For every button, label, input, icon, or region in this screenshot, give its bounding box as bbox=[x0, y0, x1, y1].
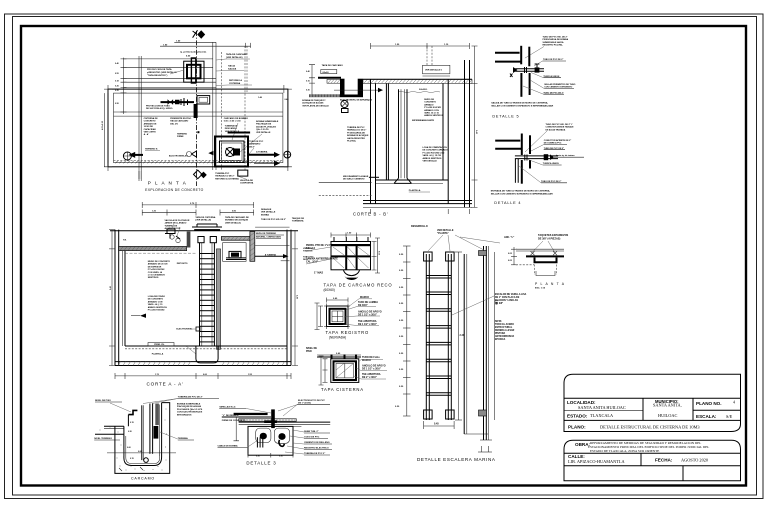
right wall inner pair bbox=[442, 83, 444, 180]
svg-text:ENTRADA DE TUBO A TRAVES DE MU: ENTRADA DE TUBO A TRAVES DE MURO DE CIST… bbox=[491, 190, 551, 193]
pump in registro bbox=[341, 100, 348, 107]
shaft anchor squares bbox=[198, 237, 204, 243]
svg-text:CARCAMO DE BOMBEO: CARCAMO DE BOMBEO bbox=[224, 117, 249, 120]
pipe above pit bbox=[228, 132, 251, 134]
registro left jamb bbox=[340, 79, 345, 97]
svg-text:A TUBERIA: A TUBERIA bbox=[256, 151, 268, 154]
svg-text:TUBO DE PVC HID. DE 2": TUBO DE PVC HID. DE 2" bbox=[543, 37, 568, 39]
svg-text:0.25: 0.25 bbox=[115, 86, 119, 88]
interior water line bbox=[125, 252, 196, 254]
svg-text:CONCRETO: CONCRETO bbox=[424, 102, 436, 104]
row line mid right bbox=[693, 409, 741, 411]
right leader texts above plan bbox=[226, 53, 248, 85]
internal dim ticks bbox=[127, 422, 142, 460]
shaft right wall hatched bbox=[216, 249, 220, 349]
svg-text:DE AGUA TRATADA: DE AGUA TRATADA bbox=[546, 128, 566, 131]
svg-text:S/E: S/E bbox=[726, 414, 733, 419]
svg-text:NIVEL DE PISO: NIVEL DE PISO bbox=[95, 400, 111, 402]
top dim line bbox=[371, 45, 470, 47]
svg-text:LOSA DE CIMENTACION: LOSA DE CIMENTACION bbox=[423, 146, 448, 149]
top right text d3 bbox=[298, 400, 325, 405]
svg-text:P L A N T A: P L A N T A bbox=[535, 282, 565, 286]
right dim ticks bbox=[245, 43, 250, 48]
svg-text:CABLE DE BOMBA: CABLE DE BOMBA bbox=[218, 445, 238, 448]
taquetes text bbox=[538, 234, 569, 241]
mejoramiento text bbox=[343, 175, 369, 181]
svg-text:COMPUERTA: COMPUERTA bbox=[240, 182, 254, 185]
svg-text:0.55: 0.55 bbox=[115, 73, 119, 75]
pipe double line d4 bbox=[515, 155, 558, 157]
soil hatch band bbox=[115, 161, 281, 164]
inner band double line bbox=[114, 111, 283, 113]
svg-text:TAPA DE CARCAMO: TAPA DE CARCAMO bbox=[322, 64, 344, 67]
text block left of pump bbox=[302, 99, 329, 107]
thick lintel line bbox=[318, 77, 341, 79]
line under obra bbox=[564, 452, 741, 454]
top dim line 2 bbox=[160, 45, 251, 47]
svg-text:0.30: 0.30 bbox=[306, 90, 310, 92]
thick center bar through square bbox=[191, 58, 195, 83]
central vertical thick bbox=[271, 409, 275, 428]
tuerca marks bbox=[525, 67, 527, 73]
svg-text:VER PLANTA DE DETALLE: VER PLANTA DE DETALLE bbox=[302, 104, 329, 107]
sump pit bbox=[196, 346, 218, 363]
leaders right bbox=[232, 123, 262, 154]
right inner wall bbox=[154, 403, 162, 466]
svg-text:TAPA REGISTRO: TAPA REGISTRO bbox=[326, 330, 370, 335]
x mark 2 bbox=[553, 251, 557, 255]
svg-text:CAPACIDAD: CAPACIDAD bbox=[144, 128, 157, 131]
svg-text:TAPA DE CISTERNA: TAPA DE CISTERNA bbox=[195, 216, 215, 219]
svg-text:PLUVIAL: PLUVIAL bbox=[347, 140, 357, 143]
caption text d5 bbox=[491, 101, 553, 107]
pump box outline bbox=[223, 243, 247, 262]
section cut marker top bbox=[197, 30, 205, 38]
svg-text:DE 2" x 3/16": DE 2" x 3/16" bbox=[362, 376, 377, 379]
svg-text:VALVULA DE: VALVULA DE bbox=[240, 179, 254, 182]
ladder rungs interior bbox=[200, 254, 215, 342]
svg-text:CORTE B - B': CORTE B - B' bbox=[353, 212, 388, 217]
svg-text:F'C=250 KG/CM2: F'C=250 KG/CM2 bbox=[148, 310, 165, 312]
svg-text:P/ACHIQUE DE: P/ACHIQUE DE bbox=[256, 123, 272, 126]
tee marks d4 bbox=[525, 155, 527, 161]
leader d4 bbox=[525, 131, 547, 152]
caption text d4 bbox=[491, 190, 553, 196]
left inlet arrow bbox=[129, 152, 136, 158]
side view right pair bbox=[483, 246, 485, 440]
top plate line 2 bbox=[516, 250, 564, 252]
right circle dark bbox=[278, 433, 285, 440]
svg-text:AMBOS SENTIDOS: AMBOS SENTIDOS bbox=[423, 157, 443, 160]
bottom row divider bbox=[682, 466, 684, 481]
svg-text:PLANTILLA: PLANTILLA bbox=[152, 353, 164, 356]
svg-text:ANC. "L": ANC. "L" bbox=[504, 236, 514, 239]
svg-text:A TUBERIA: A TUBERIA bbox=[265, 253, 277, 256]
svg-text:ARMADO DE 20 CM: ARMADO DE 20 CM bbox=[148, 263, 168, 266]
svg-text:VER DETALLE: VER DETALLE bbox=[261, 211, 276, 214]
arrow on pipe d4 bbox=[550, 154, 554, 160]
svg-text:MURO DE CONCRETO: MURO DE CONCRETO bbox=[148, 261, 171, 263]
bottom dim line bbox=[115, 375, 291, 377]
far right text 2 bbox=[303, 257, 314, 262]
svg-text:SELLAR PERIMETRO DE TUBO: SELLAR PERIMETRO DE TUBO bbox=[544, 83, 576, 86]
left dim boundary bbox=[123, 58, 125, 114]
rungs bbox=[426, 276, 451, 396]
tapa registro inner square bbox=[332, 311, 343, 322]
dashed box below bbox=[535, 265, 557, 276]
svg-text:F'C=250 KG/CM2: F'C=250 KG/CM2 bbox=[148, 269, 165, 271]
svg-text:(VER DETALLE): (VER DETALLE) bbox=[195, 219, 211, 222]
svg-text:TAPA CISTERNA: TAPA CISTERNA bbox=[321, 387, 364, 392]
top dim line bbox=[142, 204, 253, 206]
svg-text:QH= 1.5 LPS: QH= 1.5 LPS bbox=[256, 129, 269, 131]
svg-text:BOMBA SUMERGIBLE: BOMBA SUMERGIBLE bbox=[256, 120, 279, 123]
leader from text to wall bbox=[525, 47, 544, 59]
svg-text:SALIDA DE TUBO A TRAVES DE MUR: SALIDA DE TUBO A TRAVES DE MURO DE CISTE… bbox=[491, 101, 548, 104]
tapa carcamo dim ticks bbox=[331, 233, 371, 238]
title block upper box outline bbox=[564, 374, 741, 431]
right j hook bbox=[279, 440, 285, 446]
right text block 2 bbox=[256, 120, 279, 134]
suction pipe pair bbox=[385, 84, 387, 181]
svg-text:AGUAS PLUVIALES: AGUAS PLUVIALES bbox=[256, 125, 276, 128]
leader to pit bbox=[186, 346, 196, 354]
svg-text:0.18: 0.18 bbox=[115, 81, 119, 83]
svg-text:4: 4 bbox=[733, 400, 735, 405]
step bench left bbox=[148, 343, 174, 347]
wall right vertical lower bbox=[529, 73, 531, 95]
svg-text:CEMENTO DE RELLENO: CEMENTO DE RELLENO bbox=[304, 442, 330, 444]
svg-text:SANTA ANITA HUILOAC: SANTA ANITA HUILOAC bbox=[578, 405, 626, 410]
svg-text:HIDRAULICO DE 2": HIDRAULICO DE 2" bbox=[347, 129, 366, 132]
svg-text:TAPA DE CARCAMO DE: TAPA DE CARCAMO DE bbox=[225, 216, 249, 219]
inner floor second line bbox=[126, 405, 160, 464]
svg-text:CISTERNA: CISTERNA bbox=[229, 82, 241, 85]
left wall pair bbox=[370, 79, 372, 203]
pump pit inner bbox=[220, 141, 245, 163]
svg-text:SALIDA: SALIDA bbox=[228, 68, 237, 71]
svg-text:VER DETALLE 5: VER DETALLE 5 bbox=[425, 69, 443, 72]
svg-text:ARMADO CON: ARMADO CON bbox=[148, 300, 163, 303]
svg-text:HACIA CARCAMO: HACIA CARCAMO bbox=[170, 120, 188, 123]
svg-text:p/REGISTRO (VER DETALLE: p/REGISTRO (VER DETALLE bbox=[147, 71, 177, 74]
svg-text:ESCALA:: ESCALA: bbox=[696, 414, 717, 419]
tapa carcamo handle dark arc bbox=[345, 276, 359, 280]
ladder right rail bbox=[447, 254, 449, 420]
inlet arrow at pipe left bbox=[513, 67, 518, 73]
left dim vertical bbox=[235, 417, 237, 441]
svg-text:ELECTRODUCTO DE PVC: ELECTRODUCTO DE PVC bbox=[298, 400, 325, 402]
svg-text:AGOSTO 2020: AGOSTO 2020 bbox=[681, 457, 708, 462]
text block left area bbox=[144, 117, 159, 136]
svg-text:BOMBA DE ACHIQUE: BOMBA DE ACHIQUE bbox=[347, 134, 369, 137]
main rect inner bbox=[114, 93, 283, 163]
leader to mini planta bbox=[460, 237, 500, 243]
row line top of localidad row bbox=[564, 397, 741, 399]
leader line mid bbox=[255, 226, 289, 228]
tapa cisterna leaders bbox=[354, 360, 387, 380]
valve bowtie bbox=[168, 99, 180, 105]
tapa cisterna left dims bbox=[324, 359, 326, 383]
pipe 1 foot circle bbox=[144, 458, 149, 463]
svg-text:SUBE TUB. 2": SUBE TUB. 2" bbox=[304, 431, 319, 433]
tapa cisterna thick square bbox=[334, 361, 357, 380]
ladder left rail bbox=[425, 254, 427, 420]
a tuberia arrow right bbox=[255, 255, 283, 257]
tapa carcamo posts above bbox=[334, 237, 368, 242]
svg-text:AMBOS SENTIDOS: AMBOS SENTIDOS bbox=[148, 306, 168, 309]
svg-text:TUBO DE PVC HID. DE 2": TUBO DE PVC HID. DE 2" bbox=[261, 219, 286, 221]
svg-text:VARS. #4 @ 15: VARS. #4 @ 15 bbox=[424, 112, 439, 115]
svg-text:PISO: PISO bbox=[306, 350, 312, 353]
svg-text:P/ACHIQUE DE AGUAS: P/ACHIQUE DE AGUAS bbox=[177, 405, 202, 408]
leader line 3 bbox=[281, 260, 290, 262]
svg-text:DEBERA LLEVAR: DEBERA LLEVAR bbox=[495, 329, 515, 332]
text escalon bbox=[495, 293, 527, 305]
svg-text:ESC. 1:10: ESC. 1:10 bbox=[535, 288, 546, 290]
svg-text:CORTE A - A': CORTE A - A' bbox=[147, 382, 184, 387]
interior left wall faces bbox=[122, 249, 124, 346]
arm right verticals bbox=[212, 42, 214, 170]
dim micro text bbox=[395, 254, 404, 408]
right text block bomba bbox=[177, 403, 203, 417]
side view bottom plate bbox=[479, 410, 487, 416]
left rebar verticals bbox=[257, 437, 262, 447]
right text block 1 bbox=[224, 117, 249, 133]
leaders right d3 bbox=[285, 430, 304, 454]
svg-text:DE 1 1/2" x 3/16": DE 1 1/2" x 3/16" bbox=[362, 368, 381, 371]
interior text block 2 bbox=[423, 146, 449, 163]
floor lines bbox=[376, 179, 449, 181]
svg-text:P/ DESCARGA DE: P/ DESCARGA DE bbox=[347, 131, 365, 134]
black dot bbox=[197, 131, 199, 133]
tapa carcamo mullion v1 bbox=[345, 246, 347, 270]
svg-text:PLANO:: PLANO: bbox=[568, 425, 586, 430]
svg-text:DETALLE 3: DETALLE 3 bbox=[246, 461, 276, 466]
svg-text:PENDIENTE EN PISO: PENDIENTE EN PISO bbox=[170, 118, 191, 120]
svg-text:DE 1" CON PLACA DE: DE 1" CON PLACA DE bbox=[495, 296, 520, 299]
svg-text:0.15: 0.15 bbox=[130, 458, 134, 460]
slab hatch right of registro bbox=[363, 79, 472, 83]
svg-text:EXPLORACION DE CONCRETO: EXPLORACION DE CONCRETO bbox=[145, 188, 203, 192]
svg-text:TODO EL ACERO: TODO EL ACERO bbox=[495, 323, 514, 326]
right wall verticals bbox=[286, 230, 288, 366]
svg-text:TERRENO: TERRENO bbox=[177, 134, 188, 136]
dashed soil line bbox=[114, 160, 283, 162]
right dim vertical bbox=[294, 231, 296, 366]
tapa carcamo handle arc bbox=[344, 270, 360, 275]
svg-text:1" MAS: 1" MAS bbox=[314, 271, 323, 275]
svg-text:DE 1" (DOS): DE 1" (DOS) bbox=[298, 403, 311, 405]
tapa registro right texts bbox=[358, 296, 382, 326]
tapa registro thick square bbox=[330, 309, 346, 324]
svg-text:ESTRUCTURAL: ESTRUCTURAL bbox=[495, 326, 513, 329]
tapa carcamo outer square bbox=[331, 242, 371, 270]
svg-text:(60X60): (60X60) bbox=[324, 288, 335, 292]
svg-text:0.15: 0.15 bbox=[306, 81, 310, 83]
svg-text:ARMADO: ARMADO bbox=[424, 103, 434, 106]
ground lines left upper bbox=[104, 425, 124, 427]
svg-text:ELECTRONIVELES: ELECTRONIVELES bbox=[169, 156, 188, 158]
bottom dim ticks bbox=[371, 209, 470, 214]
svg-text:NOTA:: NOTA: bbox=[495, 320, 502, 323]
svg-text:"TAPA REGISTRO"): "TAPA REGISTRO") bbox=[147, 74, 168, 77]
svg-text:MURO DE: MURO DE bbox=[424, 99, 434, 101]
dashed drop lines from box bbox=[426, 46, 428, 65]
column divider 2 bbox=[692, 398, 694, 420]
svg-text:RETORNO A CISTERNA: RETORNO A CISTERNA bbox=[215, 177, 239, 180]
tapa cisterna inner square bbox=[336, 363, 354, 378]
slab black band bbox=[234, 413, 268, 415]
top dim line 1 bbox=[174, 41, 216, 43]
svg-text:0.40: 0.40 bbox=[306, 70, 310, 73]
pit water zigzag bbox=[218, 161, 248, 163]
tapa cisterna top band bbox=[317, 354, 361, 356]
bottom anchor plates bbox=[424, 410, 433, 419]
tapa carcamo mullion h bbox=[331, 255, 371, 257]
left dim vertical bbox=[311, 65, 313, 96]
equipment square inner thick bbox=[187, 65, 201, 79]
svg-text:HACIA: HACIA bbox=[228, 65, 235, 68]
leader from electroducto bbox=[278, 405, 297, 416]
slab edge lower d4 bbox=[495, 148, 521, 150]
dashes left of channel bbox=[516, 264, 534, 266]
wall left vertical lower bbox=[520, 73, 522, 97]
tapa assembly over shaft bbox=[194, 229, 220, 231]
svg-text:ACHIQUE DE AGUAS: ACHIQUE DE AGUAS bbox=[302, 102, 324, 105]
svg-text:PROYECCION DE TAPA: PROYECCION DE TAPA bbox=[147, 68, 172, 71]
far right text 1 bbox=[303, 248, 313, 253]
svg-text:ELECTRONIVEL DE ARRANQUE: ELECTRONIVEL DE ARRANQUE bbox=[340, 99, 373, 102]
svg-text:0.40: 0.40 bbox=[115, 62, 119, 65]
left circle dark bbox=[260, 433, 267, 440]
thick center pipe vertical bbox=[194, 104, 198, 118]
registro bottom bar bbox=[340, 95, 363, 98]
long leader to rung bbox=[452, 296, 494, 315]
svg-text:F'C=250 KG/CM2: F'C=250 KG/CM2 bbox=[424, 107, 441, 109]
step at top left bbox=[128, 410, 137, 414]
svg-text:TUBERIA PVC: TUBERIA PVC bbox=[215, 172, 230, 175]
tapa registro corner ticks bbox=[324, 304, 350, 330]
text block below pump bbox=[347, 126, 369, 143]
bottom bracket bbox=[536, 271, 555, 276]
svg-text:TORMENTA: TORMENTA bbox=[292, 220, 304, 223]
bottom slab lines bbox=[115, 361, 291, 363]
svg-text:HACIA REGISTRO: HACIA REGISTRO bbox=[347, 137, 365, 140]
svg-text:TUBERIA DE PVC 2": TUBERIA DE PVC 2" bbox=[304, 452, 325, 455]
svg-text:IMPERMEABILIZANTE: IMPERMEABILIZANTE bbox=[412, 119, 435, 122]
equipment square outer bbox=[184, 61, 204, 82]
slab edge lower bbox=[495, 61, 521, 63]
svg-text:MARCO: MARCO bbox=[360, 296, 369, 299]
tapa registro leader underlines bbox=[343, 299, 380, 326]
svg-text:LOSA DE FONDO: LOSA DE FONDO bbox=[148, 295, 166, 298]
svg-text:VER DETALLE: VER DETALLE bbox=[423, 160, 438, 163]
interior ladder tubes bbox=[398, 89, 400, 178]
slab line 1 bbox=[222, 416, 271, 418]
step vertical drop bbox=[124, 415, 128, 435]
floor line bbox=[125, 345, 287, 347]
suction arrow at pit bbox=[208, 151, 213, 156]
valve body bbox=[535, 67, 540, 72]
dashed floor line bbox=[125, 348, 287, 350]
top right text 1 bbox=[225, 216, 249, 224]
dim ticks bbox=[403, 246, 411, 416]
svg-text:MEJORAMIENTO A BASE: MEJORAMIENTO A BASE bbox=[343, 175, 369, 178]
svg-text:ARMADO CON: ARMADO CON bbox=[424, 109, 439, 112]
svg-text:0.95: 0.95 bbox=[115, 103, 119, 105]
svg-text:0.60 x 0.60 x 0.60: 0.60 x 0.60 x 0.60 bbox=[224, 121, 242, 123]
bottom diamonds bbox=[194, 170, 203, 179]
svg-text:10 M3 DE: 10 M3 DE bbox=[144, 126, 154, 128]
svg-text:@ 15 CM AMBOS: @ 15 CM AMBOS bbox=[148, 274, 166, 277]
svg-text:DE ESPESOR: DE ESPESOR bbox=[148, 266, 162, 268]
row line mid bbox=[564, 409, 643, 411]
channel U bbox=[535, 258, 557, 263]
dim line left of ladder bbox=[406, 246, 408, 416]
valve assembly pipe bbox=[161, 101, 195, 103]
text 2lines underlined d4 bbox=[544, 139, 572, 145]
svg-text:SELLAR CON CEMENTO EXPANSIVO E: SELLAR CON CEMENTO EXPANSIVO E IMPERMEAB… bbox=[491, 193, 553, 196]
slab hatch band bbox=[239, 419, 297, 422]
svg-text:BOMBEO DE ACHIQUE: BOMBEO DE ACHIQUE bbox=[225, 219, 249, 222]
svg-text:T.N.: T.N. bbox=[123, 240, 127, 242]
left loop bbox=[256, 428, 271, 442]
tapa cisterna right texts bbox=[362, 356, 386, 379]
svg-text:JARDIN DE LLENADO: JARDIN DE LLENADO bbox=[165, 222, 187, 225]
svg-text:NATURAL COMPACTADO: NATURAL COMPACTADO bbox=[256, 236, 282, 239]
left dim vertical bbox=[111, 230, 113, 366]
slab hatch band left bbox=[119, 246, 187, 250]
pipe 2 pair bbox=[149, 404, 151, 454]
wall right vertical lower d4 bbox=[529, 160, 531, 169]
svg-text:PLUVIALES QH=1.5 LPS: PLUVIALES QH=1.5 LPS bbox=[177, 408, 203, 411]
svg-text:DE CONCRETO ARMADO: DE CONCRETO ARMADO bbox=[423, 149, 449, 152]
svg-text:ESTADO:: ESTADO: bbox=[567, 414, 588, 419]
obra box outline bbox=[564, 440, 741, 480]
svg-text:DESAGUE: DESAGUE bbox=[261, 208, 272, 211]
wall left vertical upper d4 bbox=[521, 134, 523, 156]
svg-text:ANTICORROSIVA: ANTICORROSIVA bbox=[495, 335, 514, 338]
arrow marker left text bbox=[140, 314, 146, 318]
svg-text:RETORNO A: RETORNO A bbox=[229, 79, 242, 82]
tapa carcamo mullion v2 bbox=[356, 246, 358, 270]
svg-text:ESCALON DE VARILLA LISA: ESCALON DE VARILLA LISA bbox=[495, 293, 527, 296]
svg-text:DETALLE ESTRUCTURAL DE CISTERN: DETALLE ESTRUCTURAL DE CISTERNA DE 10M3 bbox=[600, 425, 700, 430]
text block interior left bbox=[148, 261, 171, 279]
svg-text:TUBERIA DE PVC DE 2": TUBERIA DE PVC DE 2" bbox=[178, 396, 203, 399]
column divider 1 bbox=[642, 398, 644, 420]
main rect outer bbox=[108, 89, 288, 167]
svg-text:PROYECCION DE TUBO: PROYECCION DE TUBO bbox=[146, 106, 170, 108]
svg-text:TUBERIA DE: TUBERIA DE bbox=[165, 224, 178, 227]
slab top line bbox=[363, 78, 472, 80]
bottom left dim bbox=[139, 171, 141, 179]
tubo text block bbox=[249, 141, 264, 148]
left texts above slab bbox=[165, 219, 190, 230]
bottom dim line bbox=[424, 425, 455, 427]
left inner wall bbox=[124, 434, 154, 465]
pump body bbox=[226, 148, 235, 157]
left circle marker bbox=[123, 152, 131, 160]
right dim line of side view bbox=[494, 252, 496, 420]
50x50 box bbox=[321, 70, 337, 74]
svg-text:DEPOSITO: DEPOSITO bbox=[177, 263, 188, 265]
svg-text:VER CORTE: VER CORTE bbox=[144, 132, 157, 134]
svg-text:VARS. #4 @ 15 CM: VARS. #4 @ 15 CM bbox=[423, 154, 442, 157]
wall left vertical upper bbox=[520, 46, 522, 65]
svg-text:4.05+0.95: 4.05+0.95 bbox=[101, 120, 104, 130]
